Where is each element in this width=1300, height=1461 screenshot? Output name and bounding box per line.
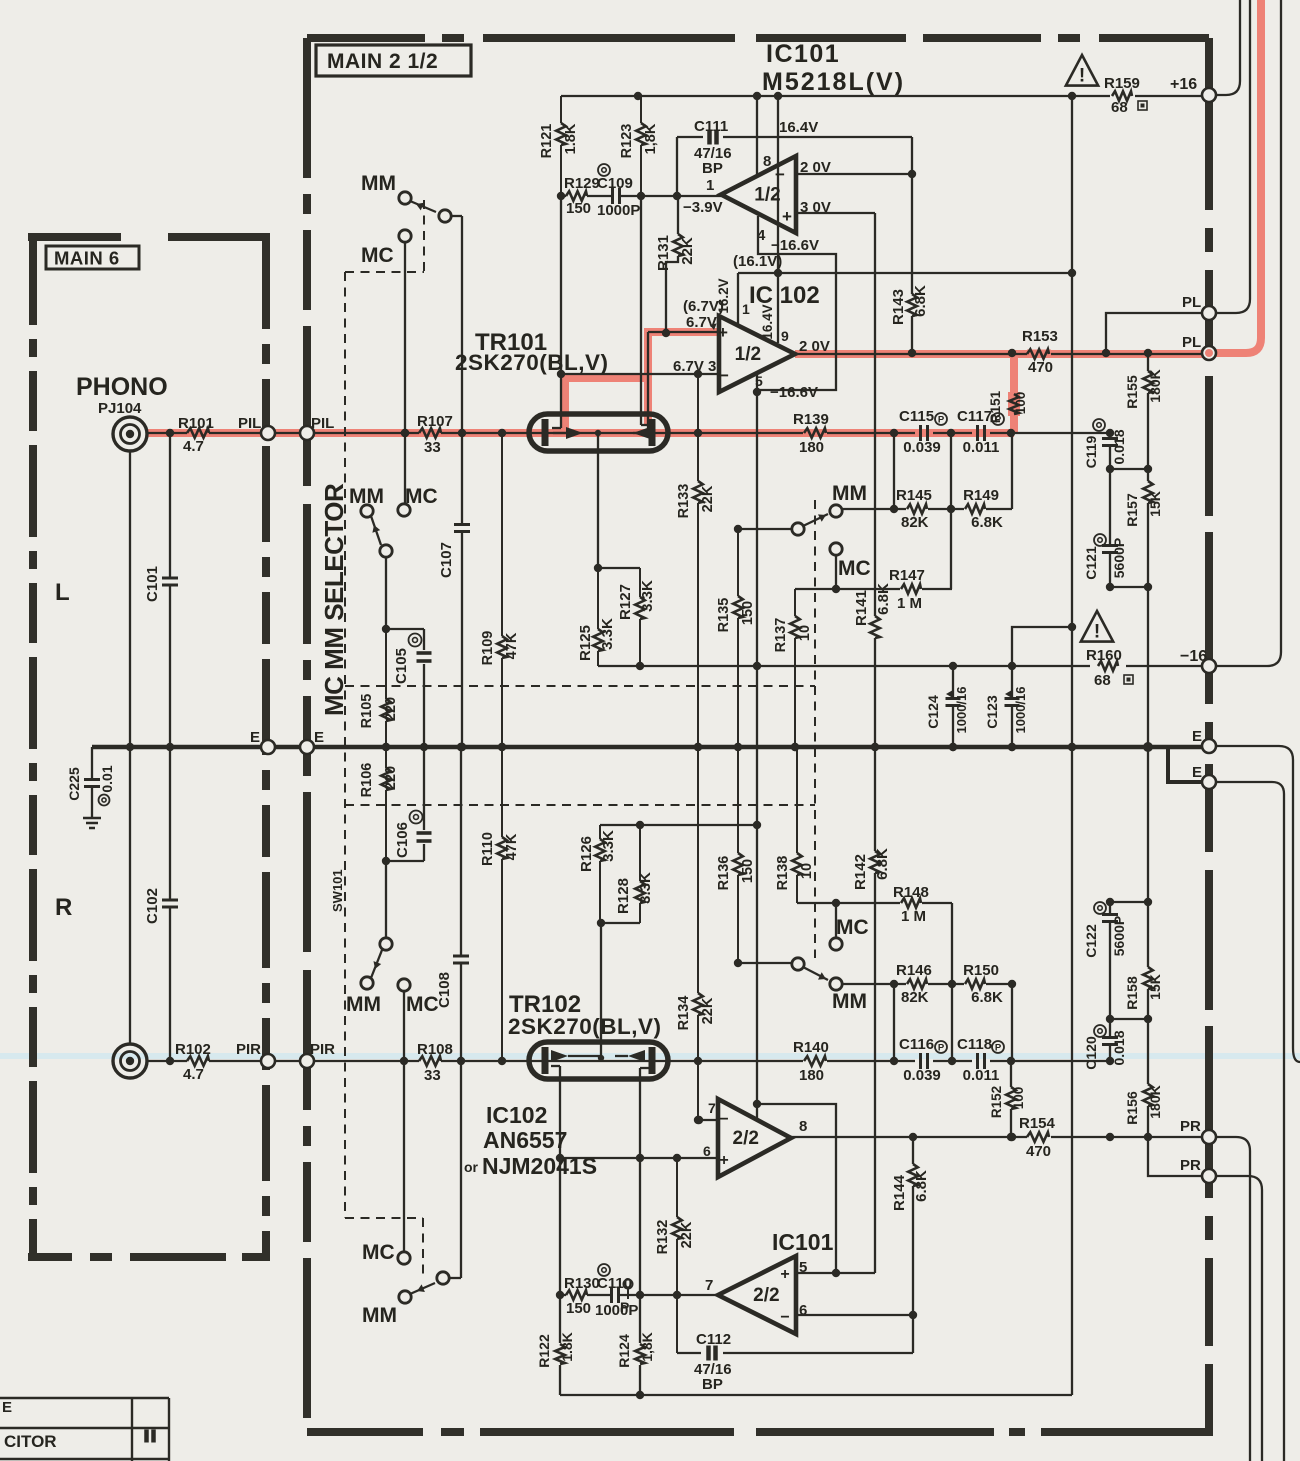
svg-text:R139: R139 — [793, 411, 829, 428]
svg-text:1/2: 1/2 — [735, 344, 761, 365]
svg-text:MC: MC — [405, 485, 438, 508]
svg-text:+: + — [718, 323, 728, 342]
svg-text:(6.7V): (6.7V) — [683, 298, 724, 315]
svg-text:!: ! — [1079, 65, 1085, 86]
svg-text:R157: R157 — [1124, 493, 1140, 527]
svg-text:0.039: 0.039 — [903, 1067, 941, 1084]
svg-text:or: or — [464, 1159, 479, 1175]
svg-text:150: 150 — [566, 200, 591, 217]
svg-text:33: 33 — [424, 439, 441, 456]
svg-text:6: 6 — [703, 1143, 711, 1159]
svg-text:MC: MC — [361, 244, 394, 267]
svg-text:M5218L(V): M5218L(V) — [762, 68, 905, 96]
svg-text:−: − — [780, 1309, 789, 1326]
svg-text:0.01: 0.01 — [99, 765, 115, 792]
svg-text:CITOR: CITOR — [4, 1432, 57, 1451]
svg-text:R132: R132 — [655, 1220, 671, 1255]
svg-text:PIR: PIR — [310, 1041, 335, 1058]
svg-text:P: P — [995, 1043, 1002, 1054]
svg-text:C225: C225 — [66, 767, 82, 801]
svg-text:C121: C121 — [1083, 546, 1099, 580]
svg-text:R140: R140 — [793, 1039, 829, 1056]
svg-text:C102: C102 — [144, 888, 161, 924]
svg-text:220: 220 — [383, 766, 399, 790]
svg-text:R149: R149 — [963, 487, 999, 504]
svg-text:R156: R156 — [1124, 1091, 1140, 1125]
svg-text:1,8K: 1,8K — [643, 123, 659, 154]
svg-text:R148: R148 — [893, 884, 929, 901]
svg-text:R138: R138 — [775, 856, 791, 891]
svg-text:MC: MC — [362, 1241, 395, 1264]
svg-text:AN6557: AN6557 — [483, 1127, 567, 1153]
svg-text:R135: R135 — [716, 598, 732, 633]
svg-text:4.7: 4.7 — [183, 438, 204, 455]
svg-text:7: 7 — [705, 1277, 713, 1294]
svg-text:10: 10 — [797, 625, 813, 641]
svg-text:MM: MM — [362, 1304, 397, 1327]
svg-text:1,8K: 1,8K — [639, 1332, 655, 1362]
svg-text:150: 150 — [740, 601, 756, 625]
svg-text:33: 33 — [424, 1067, 441, 1084]
svg-text:6.8K: 6.8K — [971, 989, 1003, 1006]
svg-text:R123: R123 — [619, 124, 635, 159]
svg-text:15K: 15K — [1147, 974, 1163, 1000]
svg-text:NJM2041S: NJM2041S — [482, 1153, 597, 1179]
svg-text:−16.6V: −16.6V — [771, 237, 819, 254]
svg-text:4.7: 4.7 — [183, 1066, 204, 1083]
svg-text:(16.1V): (16.1V) — [733, 253, 782, 270]
svg-text:IC102: IC102 — [486, 1102, 547, 1128]
svg-text:MM: MM — [349, 485, 384, 508]
svg-text:1 M: 1 M — [901, 908, 926, 925]
svg-text:R126: R126 — [578, 836, 595, 872]
svg-text:PJ104: PJ104 — [98, 400, 142, 417]
svg-text:3.3K: 3.3K — [599, 618, 616, 650]
svg-text:C107: C107 — [438, 542, 455, 578]
svg-text:8: 8 — [763, 153, 771, 170]
svg-text:1000/16: 1000/16 — [1013, 687, 1028, 734]
svg-text:IC101: IC101 — [772, 1229, 834, 1255]
svg-text:0.011: 0.011 — [963, 439, 1000, 456]
svg-text:E: E — [1192, 764, 1202, 781]
svg-text:C117: C117 — [957, 408, 992, 425]
svg-text:C119: C119 — [1083, 435, 1099, 468]
svg-text:R124: R124 — [616, 1334, 632, 1368]
svg-text:3.3K: 3.3K — [637, 872, 654, 904]
svg-text:R133: R133 — [676, 484, 692, 519]
svg-text:R147: R147 — [889, 567, 925, 584]
svg-text:100: 100 — [1011, 1087, 1026, 1110]
svg-text:R141: R141 — [853, 590, 870, 626]
svg-text:3.3K: 3.3K — [600, 830, 617, 862]
svg-text:MC: MC — [838, 557, 871, 580]
svg-text:6.8K: 6.8K — [912, 285, 929, 317]
svg-text:R130: R130 — [564, 1275, 600, 1292]
svg-text:MM: MM — [346, 993, 381, 1016]
svg-text:6.8K: 6.8K — [874, 848, 891, 880]
svg-text:1/2: 1/2 — [754, 185, 780, 206]
svg-text:180K: 180K — [1147, 369, 1163, 402]
svg-text:0.011: 0.011 — [963, 1067, 1000, 1084]
svg-text:+: + — [780, 1266, 789, 1283]
svg-text:−: − — [719, 366, 729, 385]
svg-text:2 0V: 2 0V — [799, 338, 830, 355]
svg-text:6.7V: 6.7V — [686, 314, 717, 331]
svg-text:R109: R109 — [480, 631, 496, 666]
svg-text:180K: 180K — [1147, 1085, 1163, 1118]
svg-text:R134: R134 — [676, 996, 692, 1031]
svg-text:82K: 82K — [901, 989, 929, 1006]
svg-text:68: 68 — [1111, 99, 1128, 116]
svg-text:2SK270(BL,V): 2SK270(BL,V) — [508, 1014, 662, 1039]
svg-text:C109: C109 — [597, 175, 633, 192]
svg-text:R110: R110 — [480, 832, 496, 866]
svg-text:+: + — [782, 207, 792, 226]
svg-text:470: 470 — [1028, 359, 1053, 376]
svg-text:E: E — [250, 729, 260, 746]
svg-text:R121: R121 — [539, 124, 555, 159]
svg-text:C123: C123 — [984, 695, 1000, 729]
svg-text:R137: R137 — [773, 618, 789, 653]
svg-text:16.4V: 16.4V — [760, 304, 775, 339]
svg-text:15K: 15K — [1147, 491, 1163, 517]
svg-text:PR: PR — [1180, 1118, 1201, 1135]
svg-text:+16: +16 — [1170, 76, 1197, 93]
svg-text:R125: R125 — [577, 625, 594, 661]
svg-text:R152: R152 — [989, 1086, 1004, 1118]
svg-text:R128: R128 — [615, 878, 632, 914]
svg-text:1.8K: 1.8K — [563, 123, 579, 154]
svg-text:C101: C101 — [144, 566, 161, 602]
svg-text:C105: C105 — [393, 648, 410, 684]
svg-text:E: E — [314, 729, 324, 746]
svg-text:R129: R129 — [564, 175, 600, 192]
svg-text:L: L — [55, 579, 70, 606]
svg-text:10: 10 — [799, 863, 815, 879]
svg-text:C122: C122 — [1083, 924, 1099, 958]
svg-text:C110: C110 — [597, 1275, 632, 1292]
svg-text:82K: 82K — [901, 514, 929, 531]
svg-text:5600P: 5600P — [1111, 538, 1127, 578]
svg-text:R102: R102 — [175, 1041, 211, 1058]
svg-text:R145: R145 — [896, 487, 932, 504]
svg-text:8: 8 — [799, 1118, 807, 1135]
svg-text:2/2: 2/2 — [753, 1285, 779, 1306]
svg-text:−16.6V: −16.6V — [770, 384, 818, 401]
svg-text:150: 150 — [740, 859, 756, 883]
svg-text:1: 1 — [706, 177, 714, 194]
svg-text:5: 5 — [755, 373, 763, 389]
svg-text:C115: C115 — [899, 408, 934, 425]
svg-text:6.8K: 6.8K — [913, 1170, 930, 1202]
svg-text:7: 7 — [708, 1100, 716, 1116]
svg-text:PL: PL — [1182, 334, 1201, 351]
svg-text:1000P: 1000P — [595, 1302, 638, 1319]
svg-text:2/2: 2/2 — [733, 1128, 759, 1149]
svg-text:P: P — [938, 415, 945, 426]
svg-text:+: + — [719, 1152, 728, 1169]
svg-text:−3.9V: −3.9V — [683, 199, 723, 216]
svg-text:22K: 22K — [700, 997, 716, 1024]
svg-text:C118: C118 — [957, 1036, 992, 1053]
svg-text:68: 68 — [1094, 672, 1111, 689]
svg-text:R159: R159 — [1104, 75, 1140, 92]
svg-text:220: 220 — [383, 697, 399, 721]
svg-text:150: 150 — [566, 1300, 591, 1317]
svg-text:2 0V: 2 0V — [800, 159, 831, 176]
svg-text:22K: 22K — [679, 237, 696, 265]
svg-text:PHONO: PHONO — [76, 373, 168, 401]
svg-text:47K: 47K — [504, 632, 520, 659]
svg-text:R160: R160 — [1086, 647, 1122, 664]
svg-text:6: 6 — [799, 1302, 807, 1319]
svg-text:C112: C112 — [696, 1331, 731, 1348]
svg-text:−: − — [719, 1111, 728, 1128]
svg-text:BP: BP — [702, 1376, 723, 1393]
svg-text:100: 100 — [1013, 392, 1028, 415]
svg-text:R146: R146 — [896, 962, 932, 979]
svg-text:180: 180 — [799, 1067, 824, 1084]
svg-text:PR: PR — [1180, 1157, 1201, 1174]
svg-text:1000/16: 1000/16 — [954, 687, 969, 734]
svg-text:R150: R150 — [963, 962, 999, 979]
svg-text:R105: R105 — [359, 694, 375, 729]
svg-text:C111: C111 — [694, 118, 728, 135]
svg-text:PIR: PIR — [236, 1041, 261, 1058]
svg-text:MAIN 2 1/2: MAIN 2 1/2 — [327, 50, 438, 73]
svg-text:R127: R127 — [617, 584, 634, 620]
svg-text:R142: R142 — [852, 854, 869, 890]
svg-text:IC101: IC101 — [766, 40, 840, 68]
svg-text:PL: PL — [1182, 294, 1201, 311]
svg-text:R144: R144 — [891, 1174, 908, 1211]
svg-text:P: P — [938, 1043, 945, 1054]
svg-text:47K: 47K — [504, 833, 520, 860]
svg-text:R131: R131 — [655, 235, 672, 271]
svg-text:R108: R108 — [417, 1041, 453, 1058]
svg-text:R158: R158 — [1124, 976, 1140, 1010]
svg-text:1.8K: 1.8K — [559, 1332, 575, 1362]
svg-text:1000P: 1000P — [597, 202, 640, 219]
svg-text:16.4V: 16.4V — [779, 119, 818, 136]
svg-text:P: P — [620, 1299, 629, 1315]
svg-text:MC: MC — [406, 993, 439, 1016]
svg-text:R: R — [55, 894, 72, 921]
svg-text:R101: R101 — [178, 415, 214, 432]
svg-text:2SK270(BL,V): 2SK270(BL,V) — [455, 350, 609, 375]
svg-text:C106: C106 — [394, 822, 411, 858]
svg-text:MM: MM — [832, 990, 867, 1013]
svg-text:22K: 22K — [700, 485, 716, 512]
svg-text:0.039: 0.039 — [903, 439, 941, 456]
svg-text:!: ! — [1094, 621, 1100, 642]
svg-text:C116: C116 — [899, 1036, 934, 1053]
svg-text:E: E — [1192, 728, 1202, 745]
svg-text:6.8K: 6.8K — [971, 514, 1003, 531]
svg-text:6.8K: 6.8K — [875, 583, 892, 615]
svg-text:BP: BP — [702, 160, 723, 177]
svg-text:C124: C124 — [925, 695, 941, 729]
svg-text:1: 1 — [742, 301, 750, 317]
svg-text:MC MM SELECTOR: MC MM SELECTOR — [319, 483, 349, 716]
svg-text:R122: R122 — [536, 1334, 552, 1368]
svg-text:R107: R107 — [417, 413, 453, 430]
svg-text:R106: R106 — [359, 763, 375, 798]
svg-text:R153: R153 — [1022, 328, 1058, 345]
svg-text:−: − — [775, 165, 785, 184]
svg-text:180: 180 — [799, 439, 824, 456]
svg-text:5600P: 5600P — [1111, 916, 1127, 956]
svg-text:MC: MC — [836, 916, 869, 939]
svg-text:R143: R143 — [890, 289, 907, 325]
svg-text:3.3K: 3.3K — [639, 580, 656, 612]
svg-text:PIL: PIL — [238, 415, 261, 432]
svg-text:22K: 22K — [679, 1221, 695, 1248]
svg-text:1 M: 1 M — [897, 595, 922, 612]
svg-text:R136: R136 — [716, 856, 732, 891]
svg-text:SW101: SW101 — [330, 869, 345, 912]
svg-text:MM: MM — [361, 172, 396, 195]
svg-text:470: 470 — [1026, 1143, 1051, 1160]
svg-text:C120: C120 — [1083, 1036, 1099, 1070]
svg-text:MM: MM — [832, 482, 867, 505]
svg-text:MAIN 6: MAIN 6 — [54, 248, 120, 269]
svg-text:R155: R155 — [1124, 375, 1140, 409]
svg-text:C108: C108 — [436, 972, 453, 1008]
svg-text:9: 9 — [781, 328, 789, 344]
svg-text:R151: R151 — [988, 390, 1003, 423]
svg-text:R154: R154 — [1019, 1115, 1056, 1132]
svg-text:E: E — [2, 1399, 12, 1416]
